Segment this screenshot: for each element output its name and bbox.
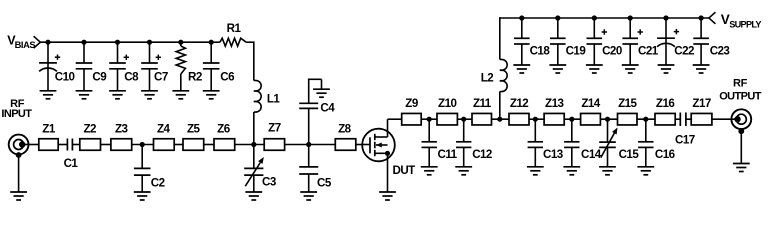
svg-text:L1: L1	[267, 92, 281, 105]
wire input connector ground	[16, 152, 22, 158]
wire drain to Z9	[388, 118, 402, 120]
svg-text:R1: R1	[227, 22, 242, 35]
ground C19	[549, 64, 566, 66]
ground C8	[109, 90, 126, 92]
node C4/C5 junction	[306, 142, 311, 147]
line Z7	[264, 139, 284, 151]
svg-text:C22: C22	[674, 45, 694, 58]
line Z15	[618, 113, 638, 125]
svg-text:C14: C14	[581, 148, 602, 161]
wire output connector ground	[738, 128, 744, 134]
svg-text:Z7: Z7	[268, 122, 281, 135]
svg-text:Z1: Z1	[42, 123, 56, 136]
svg-text:SUPPLY: SUPPLY	[729, 20, 761, 30]
wire Z11 to Z12	[492, 118, 510, 120]
ground C15	[599, 166, 616, 168]
node C18	[519, 15, 524, 20]
capacitor C12	[463, 119, 465, 142]
capacitor C2	[141, 145, 143, 169]
capacitor C22 polarized	[665, 18, 667, 65]
node C8	[115, 40, 120, 45]
node L1/C3/Z7 junction	[251, 142, 256, 147]
ground C22	[658, 64, 675, 66]
svg-text:C18: C18	[530, 45, 551, 58]
node C7	[147, 40, 152, 45]
svg-text:Z2: Z2	[83, 123, 96, 136]
svg-text:R2: R2	[188, 71, 202, 84]
capacitor C10	[47, 42, 49, 91]
line Z4	[154, 139, 175, 151]
wire Z4 to Z5	[174, 144, 183, 146]
ground C18	[513, 64, 530, 66]
line Z2	[80, 139, 101, 151]
line Z6	[214, 139, 235, 151]
inductor L2	[499, 92, 501, 120]
ground C3	[245, 191, 262, 193]
svg-text:C15: C15	[619, 148, 640, 161]
capacitor C7	[149, 42, 151, 63]
svg-text:C6: C6	[220, 71, 235, 84]
svg-text:INPUT: INPUT	[1, 108, 32, 120]
node C2	[140, 142, 145, 147]
VSUPPLY input terminal chevron	[709, 12, 716, 24]
line Z14	[581, 113, 601, 125]
svg-text:Z6: Z6	[217, 123, 231, 136]
svg-text:C23: C23	[710, 45, 731, 58]
line Z13	[544, 113, 564, 125]
svg-text:L2: L2	[481, 72, 494, 85]
svg-text:OUTPUT: OUTPUT	[719, 90, 762, 102]
ground R2	[172, 90, 189, 92]
node C19	[555, 15, 560, 20]
wire Z13 to Z14	[564, 118, 580, 120]
wire Z16 to C17	[675, 118, 680, 120]
line Z5	[183, 139, 204, 151]
capacitor C16	[645, 119, 647, 142]
node C20	[592, 15, 597, 20]
ground C23	[693, 64, 710, 66]
capacitor C23	[700, 18, 702, 38]
capacitor C19	[557, 18, 559, 38]
capacitor C18	[521, 18, 523, 38]
wire R1 to L1	[246, 41, 254, 43]
node C6	[209, 40, 214, 45]
svg-text:C19: C19	[566, 45, 587, 58]
ground C6	[203, 90, 220, 92]
node C15	[605, 117, 610, 122]
line Z10	[437, 113, 457, 125]
ground C4	[313, 88, 330, 90]
capacitor C11	[428, 119, 430, 142]
svg-text:C7: C7	[154, 71, 168, 84]
ground C5	[300, 191, 317, 193]
line Z1	[39, 139, 58, 151]
line Z17	[691, 113, 712, 125]
connector RF INPUT	[9, 135, 29, 155]
svg-text:C11: C11	[438, 148, 458, 161]
svg-text:C3: C3	[262, 175, 277, 188]
wire Z15 to Z16	[637, 118, 655, 120]
capacitor C8	[117, 42, 119, 63]
ground C14	[563, 166, 580, 168]
wire Z2 to Z3	[101, 144, 111, 146]
capacitor C20	[593, 18, 595, 38]
capacitor C9	[83, 42, 85, 63]
capacitor C13	[534, 119, 536, 142]
ground C7	[141, 90, 158, 92]
wire Z1 to C1	[58, 144, 67, 146]
ground C12	[455, 166, 472, 168]
inductor L1	[254, 80, 261, 112]
wire Z7 to Z8	[285, 144, 336, 146]
capacitor C14	[571, 119, 573, 142]
capacitor C17	[679, 113, 681, 127]
wire Z10 to Z11	[457, 118, 472, 120]
capacitor C3 variable	[253, 145, 255, 169]
ground C16	[637, 166, 654, 168]
svg-text:Z4: Z4	[157, 123, 171, 136]
wire Z6 to Z7	[235, 144, 265, 146]
wire supply rail	[500, 17, 709, 19]
wire C17 to Z17	[686, 118, 691, 120]
wire Z3 to Z4	[132, 144, 154, 146]
node C13	[533, 117, 538, 122]
node C22	[663, 15, 668, 20]
ground DUT source	[379, 191, 396, 193]
wire Z14 to Z15	[600, 118, 617, 120]
svg-text:C20: C20	[602, 45, 622, 58]
wire Z9 to Z10	[421, 118, 437, 120]
svg-text:Z17: Z17	[692, 97, 710, 110]
svg-text:C2: C2	[151, 176, 165, 189]
svg-text:C5: C5	[317, 176, 332, 189]
node L2 junction	[497, 117, 502, 122]
transistor DUT	[362, 129, 395, 162]
svg-text:Z13: Z13	[545, 97, 564, 110]
svg-text:C8: C8	[124, 71, 139, 84]
wire connector to Z1	[25, 144, 39, 146]
ground output connector	[733, 163, 750, 165]
svg-text:DUT: DUT	[393, 164, 416, 177]
line Z8	[335, 139, 356, 151]
node C12	[461, 117, 466, 122]
svg-text:C10: C10	[55, 71, 75, 84]
wire Z12 to Z13	[529, 118, 544, 120]
svg-text:C12: C12	[472, 148, 492, 161]
node C23	[699, 15, 704, 20]
svg-text:C16: C16	[655, 148, 676, 161]
wire bias rail	[40, 41, 220, 43]
ground C9	[76, 90, 93, 92]
ground C21	[622, 64, 639, 66]
resistor R1	[220, 38, 246, 46]
ground C20	[586, 64, 603, 66]
svg-text:C13: C13	[543, 148, 564, 161]
wire Z17 to output connector	[712, 118, 735, 120]
capacitor C15 variable	[607, 119, 609, 142]
capacitor C1	[66, 139, 68, 151]
svg-text:Z14: Z14	[581, 97, 600, 110]
node C9	[81, 40, 86, 45]
resistor R2	[180, 42, 182, 46]
svg-text:Z12: Z12	[510, 97, 528, 110]
svg-text:Z10: Z10	[438, 97, 456, 110]
capacitor C6	[210, 42, 212, 63]
wire L1 to input line	[253, 112, 255, 145]
line Z3	[111, 139, 132, 151]
line Z11	[472, 113, 492, 125]
wire C1 to Z2	[72, 144, 79, 146]
node R2	[178, 40, 183, 45]
svg-text:C4: C4	[320, 101, 335, 114]
svg-text:Z3: Z3	[115, 123, 129, 136]
svg-text:Z11: Z11	[473, 97, 492, 110]
svg-text:Z8: Z8	[338, 123, 352, 136]
ground C13	[527, 166, 544, 168]
svg-text:C21: C21	[638, 45, 659, 58]
line Z16	[655, 113, 675, 125]
svg-text:Z15: Z15	[618, 97, 637, 110]
node C11	[427, 117, 432, 122]
VBIAS input terminal chevron	[34, 36, 41, 48]
capacitor C21	[629, 18, 631, 38]
svg-text:C17: C17	[675, 134, 695, 147]
node C16	[643, 117, 648, 122]
node C14	[569, 117, 574, 122]
node C10	[45, 40, 50, 45]
svg-text:Z16: Z16	[656, 97, 675, 110]
svg-text:Z5: Z5	[187, 123, 201, 136]
wire Z8 to DUT gate	[356, 144, 370, 146]
svg-text:C9: C9	[92, 71, 107, 84]
svg-text:BIAS: BIAS	[15, 40, 36, 50]
line Z12	[509, 113, 529, 125]
capacitor C5	[308, 145, 310, 167]
svg-text:RF: RF	[733, 77, 748, 89]
svg-text:Z9: Z9	[405, 97, 419, 110]
ground C2	[134, 191, 151, 193]
connector RF OUTPUT	[731, 109, 751, 129]
node C21	[628, 15, 633, 20]
ground input connector	[10, 191, 27, 193]
line Z9	[402, 113, 422, 125]
capacitor C4	[308, 108, 310, 144]
ground C10	[40, 90, 57, 92]
ground C11	[421, 166, 438, 168]
svg-text:C1: C1	[64, 157, 79, 170]
wire Z5 to Z6	[204, 144, 214, 146]
